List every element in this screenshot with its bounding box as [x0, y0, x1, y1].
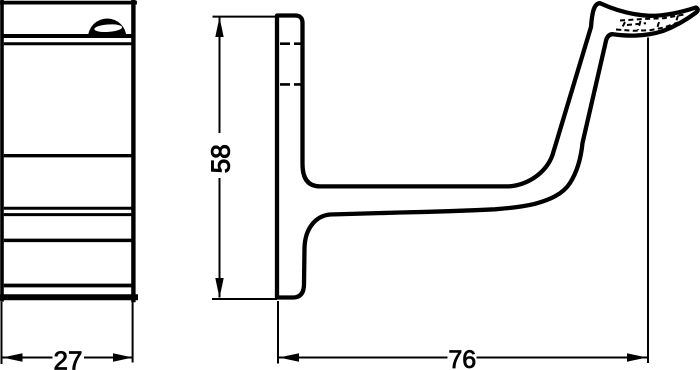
dim 76 right extension line [647, 38, 649, 364]
hidden contour mesh in saddle scoop [616, 15, 684, 31]
front view bottom edge [1, 294, 135, 300]
front view top edge [2, 1, 135, 5]
dim 27 line left segment [3, 357, 53, 359]
dim 58 top extension line [213, 16, 277, 18]
front view right edge [131, 1, 135, 300]
face line 7 [4, 284, 132, 288]
mesh connector dash c [621, 22, 625, 30]
dimension 76 lines [278, 38, 648, 364]
dome knob highlight [94, 24, 122, 33]
face line 2 [4, 42, 132, 45]
mesh connector dash d [638, 21, 641, 30]
mesh connector dash b [675, 16, 679, 27]
dimension 58 lines [212, 17, 277, 299]
svg-text:76: 76 [448, 346, 476, 370]
front view left edge [0, 1, 4, 300]
face line 5 [4, 213, 132, 216]
front view face lines [3, 36, 132, 286]
svg-text:58: 58 [206, 144, 236, 173]
front view outer rectangle [1, 1, 135, 300]
face line 4 [4, 207, 132, 210]
side view bracket outline (wall plate, arm, riser, saddle) [277, 3, 698, 297]
dim 76 left arrowhead [279, 353, 299, 361]
dim 27 left arrowhead [3, 353, 23, 361]
mesh middle dash [627, 23, 646, 25]
dim 76 right arrowhead [627, 353, 647, 361]
dome knob (saddle seen from front) [88, 19, 126, 38]
face line 3 [4, 154, 132, 157]
dim 27 right extension line [132, 299, 134, 363]
dim 27 line right segment [84, 357, 133, 359]
svg-text:27: 27 [54, 346, 83, 370]
dim 76 left extension line [277, 301, 279, 364]
dim 27 left extension line [1, 302, 3, 364]
mesh upper dashed arc [620, 15, 684, 21]
dim 76 line left segment [279, 357, 448, 359]
hidden screw hole lines in wall plate [280, 44, 301, 85]
hidden hole line upper [280, 42, 301, 45]
face line 1 (saddle underside edge) [3, 34, 132, 38]
dim 58 bottom extension line [212, 298, 277, 300]
dim 58 top arrowhead [215, 17, 223, 37]
dim 58 bottom arrowhead [215, 278, 223, 298]
dim 58 line lower segment [219, 178, 221, 298]
mesh connector dash a [657, 22, 660, 30]
dim 76 line right segment [477, 357, 648, 359]
dim 27 right arrowhead [113, 353, 133, 361]
dimension 27 lines [2, 299, 134, 364]
hidden hole line lower [280, 83, 301, 86]
mesh lower dashed arc [616, 23, 678, 31]
face line 6 [4, 239, 132, 243]
dim 58 line upper segment [219, 18, 221, 134]
